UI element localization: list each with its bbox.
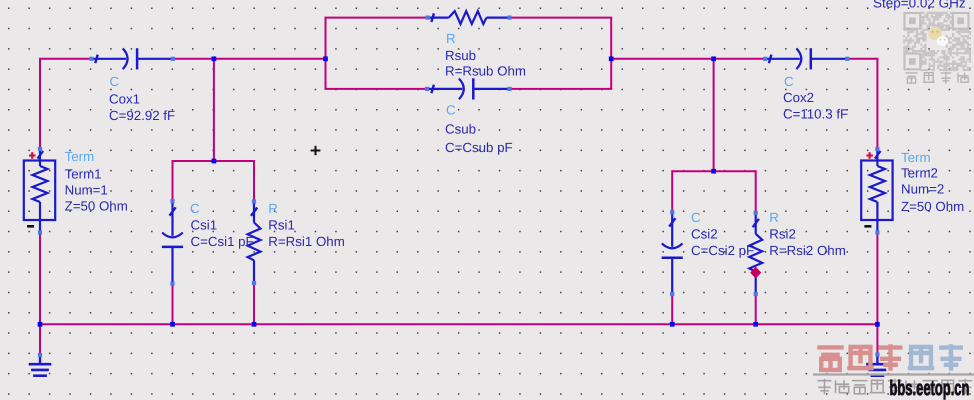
wire: loop top-left segment xyxy=(325,17,428,19)
watermark: bbs.eetop.cn xyxy=(890,377,970,400)
svg-text:Csub: Csub xyxy=(445,122,476,137)
svg-text:Term: Term xyxy=(901,150,931,165)
watermark: underline xyxy=(813,373,974,375)
wire: ground bus xyxy=(40,323,877,325)
svg-text:R=Rsub Ohm: R=Rsub Ohm xyxy=(445,64,526,79)
watermark: rf antenna design text xyxy=(818,379,973,395)
capacitor Cox1 labels xyxy=(109,74,175,123)
wire: loop bottom-left segment xyxy=(325,88,428,90)
svg-text:Step=0.02 GHz: Step=0.02 GHz xyxy=(873,0,966,11)
resistor Rsi2 labels xyxy=(769,210,845,258)
wire: right rail to Rsi2 pin1 xyxy=(755,170,757,213)
wire: loop bottom-right segment xyxy=(510,88,613,90)
resistor R Rsi1 symbol xyxy=(248,203,261,284)
svg-text:R=Rsi1 Ohm: R=Rsi1 Ohm xyxy=(268,234,344,249)
svg-text:Cox1: Cox1 xyxy=(109,92,140,107)
wire: Rsi2 pin2 to ground bus xyxy=(755,294,757,324)
component pin squares xyxy=(38,16,880,358)
resistor Rsub labels xyxy=(445,31,526,79)
svg-text:Rsi2: Rsi2 xyxy=(769,227,796,242)
wire: loop left vertical xyxy=(325,18,327,89)
wire: Cox1 pin2 to Rsub/Csub loop left node xyxy=(173,58,326,60)
insertion cursor cross xyxy=(311,146,321,155)
watermark: WeChat contact text xyxy=(906,72,969,84)
capacitor C Cox2 symbol xyxy=(766,48,846,69)
wire: node B drop to right RC branch xyxy=(713,59,715,171)
wire: Term1 bottom to ground bus xyxy=(39,233,41,325)
capacitor C Csub symbol xyxy=(429,78,509,99)
svg-text:R: R xyxy=(446,31,456,46)
svg-text:C=110.3 fF: C=110.3 fF xyxy=(783,107,848,122)
wire: left ground stub xyxy=(39,324,41,354)
wire: left RC branch top rail xyxy=(173,160,255,162)
svg-text:Rsi1: Rsi1 xyxy=(268,218,295,233)
Term2 minus terminal xyxy=(864,225,871,228)
Term1 minus terminal xyxy=(27,225,34,228)
wire: right RC branch top rail xyxy=(672,170,756,172)
port Term2 symbol xyxy=(861,149,892,232)
svg-text:Num=1: Num=1 xyxy=(65,183,108,198)
resistor R Rsub symbol xyxy=(429,11,510,24)
svg-text:C: C xyxy=(784,74,794,89)
svg-text:Z=50 Ohm: Z=50 Ohm xyxy=(901,199,964,214)
svg-text:Cox2: Cox2 xyxy=(783,90,814,105)
watermark: eetop training logo text xyxy=(817,344,963,371)
svg-text:C: C xyxy=(110,74,120,89)
wire: loop right node to Cox2 pin1 xyxy=(611,58,765,60)
svg-text:Term2: Term2 xyxy=(901,166,938,181)
wire: left rail to Rsi1 pin1 xyxy=(253,160,255,202)
svg-text:R=Rsi2 Ohm: R=Rsi2 Ohm xyxy=(769,243,845,258)
svg-text:Num=2: Num=2 xyxy=(901,182,944,197)
ground right ground xyxy=(866,356,889,376)
wire: left rail to Csi1 pin1 xyxy=(172,160,174,201)
svg-text:C=92.92 fF: C=92.92 fF xyxy=(109,108,175,123)
port Term1 symbol xyxy=(24,149,55,232)
svg-text:Term: Term xyxy=(65,149,95,164)
wire: loop top-right segment xyxy=(510,17,613,19)
port Term2 labels xyxy=(901,150,964,214)
capacitor Csi1 labels xyxy=(190,201,254,249)
wire: right rail to Csi2 pin1 xyxy=(671,170,673,212)
svg-text:bbs.eetop.cn: bbs.eetop.cn xyxy=(890,377,970,400)
svg-text:Z=50 Ohm: Z=50 Ohm xyxy=(65,199,128,214)
wire junction nodes xyxy=(38,56,880,326)
Term2 plus terminal xyxy=(866,154,873,156)
svg-text:C=Csi1 pF: C=Csi1 pF xyxy=(191,234,254,249)
svg-text:Rsub: Rsub xyxy=(445,48,476,63)
capacitor C Cox1 symbol xyxy=(93,48,173,69)
capacitor C Csi1 symbol xyxy=(162,202,183,282)
svg-text:R: R xyxy=(769,210,779,225)
wire: right ground stub xyxy=(876,324,878,353)
wire: Cox2 pin2 to Term2 top xyxy=(847,59,877,149)
wire: loop right vertical xyxy=(610,18,612,89)
svg-text:C=Csub pF: C=Csub pF xyxy=(445,140,513,155)
wire: Term2 bottom to ground bus xyxy=(876,233,878,325)
svg-text:Csi1: Csi1 xyxy=(191,218,218,233)
capacitor Csub labels xyxy=(445,103,513,156)
ground left ground xyxy=(29,356,52,376)
svg-text:C=Csi2 pF: C=Csi2 pF xyxy=(691,243,754,258)
svg-text:C: C xyxy=(691,210,701,225)
wire: Term1 top to Cox1 pin1 xyxy=(40,59,92,149)
wire label diamond on Rsi2 xyxy=(750,267,761,279)
wire: Csi1 pin2 to ground bus xyxy=(172,284,174,325)
WeChat logo in QR center xyxy=(928,27,942,41)
capacitor Cox2 labels xyxy=(783,74,848,122)
Term1 plus terminal xyxy=(29,154,36,156)
wire: Csi2 pin2 to ground bus xyxy=(671,294,673,324)
watermark: WeChat QR code xyxy=(903,12,971,71)
wire: Rsi1 pin2 to ground bus xyxy=(253,283,255,324)
svg-text:C: C xyxy=(446,103,456,118)
resistor Rsi1 labels xyxy=(268,201,344,249)
svg-text:Csi2: Csi2 xyxy=(691,227,718,242)
svg-text:Term1: Term1 xyxy=(65,167,102,182)
svg-text:C: C xyxy=(190,201,200,216)
capacitor Csi2 labels xyxy=(691,210,754,258)
resistor R Rsi2 symbol xyxy=(749,214,762,294)
port Term1 labels xyxy=(65,149,128,214)
capacitor C Csi2 symbol xyxy=(662,213,683,293)
svg-text:R: R xyxy=(268,201,278,216)
wire: node A drop to left RC branch xyxy=(213,59,215,161)
